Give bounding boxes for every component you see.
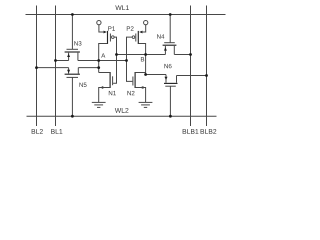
- transistor N2: [134, 72, 136, 88]
- transistor N6 access: [169, 86, 171, 116]
- label BLB2: [201, 129, 217, 134]
- wire WL2 word line: [27, 115, 217, 117]
- node BLB1 junction: [189, 53, 192, 56]
- wire BL1 to N3: [56, 60, 69, 62]
- wire node A row: [78, 60, 127, 62]
- wire N2 source to ground: [135, 88, 146, 103]
- wire VDD stem to P2 source: [143, 25, 146, 32]
- label BLB1: [183, 129, 199, 134]
- label A: [101, 53, 105, 57]
- VDD terminal circle left: [97, 20, 101, 24]
- node gate cross junction: [115, 53, 118, 56]
- label BL1: [51, 129, 62, 134]
- wire P1 N1 gate to node B row: [113, 37, 116, 83]
- transistor P1: [104, 31, 107, 34]
- wire N1 source to ground: [99, 88, 110, 103]
- label WL1: [115, 5, 129, 10]
- wire N5 to node A: [78, 67, 98, 69]
- VDD terminal circle right: [144, 20, 148, 24]
- wire BL2 to N5: [37, 67, 69, 69]
- transistor N3 access: [71, 15, 73, 50]
- transistor N4 access: [169, 15, 171, 43]
- ground symbol left: [92, 101, 106, 103]
- wire node B row: [117, 54, 166, 56]
- label WL2: [115, 108, 129, 113]
- wire WL1 word line: [26, 14, 226, 16]
- node N4 gate on WL1: [169, 13, 172, 16]
- wire N2 drain stub: [135, 72, 146, 74]
- node A junction: [97, 59, 100, 62]
- node N5 gate on WL2: [71, 115, 74, 118]
- wire N6 to BLB2: [177, 75, 207, 77]
- wire P1 drain to node A: [99, 44, 108, 73]
- wire VDD stem to P1 source: [99, 25, 104, 32]
- wire BL2 bit line: [36, 6, 38, 127]
- node A row end junction: [125, 59, 128, 62]
- wire BLB2 bit line: [206, 6, 208, 127]
- node A lower junction: [97, 66, 100, 69]
- wire BLB1 bit line: [190, 6, 192, 127]
- transistor N5 access: [71, 77, 73, 116]
- node BL2 junction: [35, 66, 38, 69]
- wire P2 N2 gate to node A row: [127, 37, 133, 81]
- node N3 gate on WL1: [71, 13, 74, 16]
- transistor P2: [139, 31, 142, 34]
- node N6 gate on WL2: [169, 115, 172, 118]
- node B junction: [144, 53, 147, 56]
- node BLB2 junction: [205, 74, 208, 77]
- label BL2: [32, 129, 43, 134]
- wire N1 drain stub: [99, 72, 110, 74]
- node BL1 junction: [54, 59, 57, 62]
- node B lower junction: [144, 73, 147, 76]
- wire P2 drain to node B: [138, 44, 145, 75]
- transistor N1: [109, 72, 111, 88]
- wire BL1 bit line: [55, 6, 57, 127]
- ground symbol right: [139, 101, 153, 103]
- wire N4 to BLB1: [174, 54, 190, 56]
- label B: [141, 57, 144, 61]
- wire node B to N6: [146, 74, 166, 76]
